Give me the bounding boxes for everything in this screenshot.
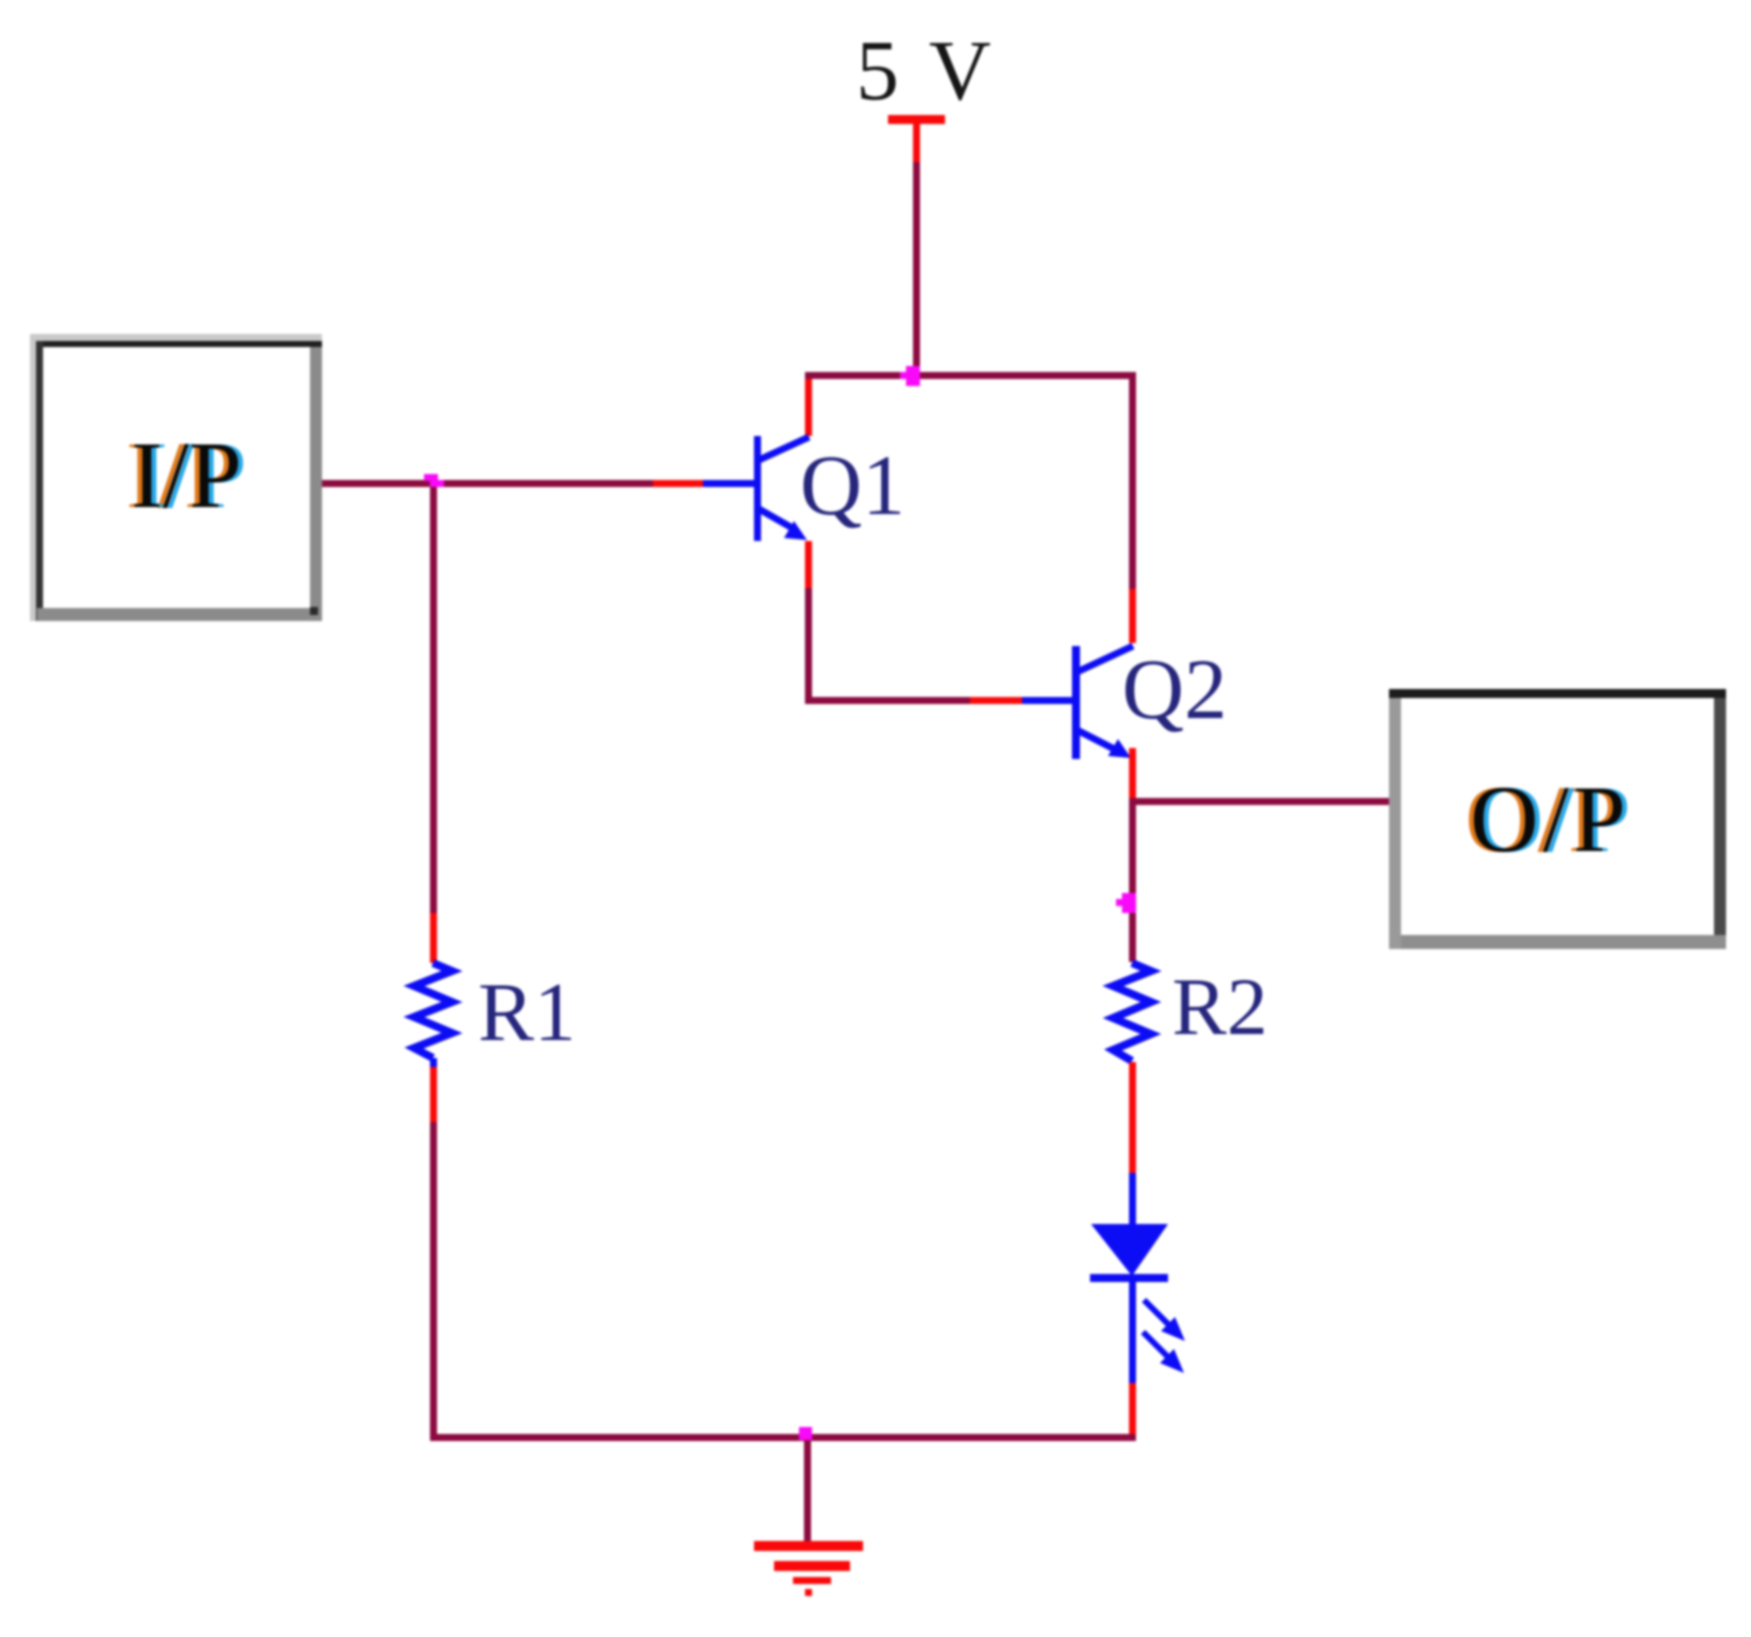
transistor Q1 [754,436,809,541]
label O/P [1465,766,1635,872]
wire Q2 emitter down [1129,748,1136,798]
svg-text:Q1: Q1 [800,437,905,533]
node junction J2 [424,474,444,487]
svg-text:Q2: Q2 [1122,641,1227,737]
node junction J3 [1116,893,1136,913]
wire R2 to LED [1129,1062,1136,1226]
wire Q1 collector red [805,379,812,436]
I/P box [30,334,322,621]
node 5V label [856,22,996,118]
node junction J4 [799,1427,812,1440]
svg-text:R1: R1 [478,966,576,1059]
wire 5V stem [913,162,920,373]
transistor Q2 [1072,646,1133,759]
wire Q1 emitter to Q2 base [805,697,1072,704]
wire emitter net down to R2 [1129,805,1136,962]
label I/P [126,422,247,528]
wire LED to bottom [1129,1383,1136,1434]
wire I/P to Q1 base [322,480,754,487]
power symbol 5V bar [888,115,945,162]
resistor R1 [414,963,452,1058]
wire I/P net left vertical [430,487,437,963]
O/P box [1389,689,1726,949]
wire Q1 emitter down [805,541,812,697]
ground [754,1541,863,1596]
resistor R2 [1113,963,1151,1061]
LED D1 [1090,1224,1185,1383]
svg-text:R2: R2 [1172,961,1268,1052]
node junction J1 [900,366,920,386]
wire to O/P box [1129,798,1389,805]
wire R1 to bottom [430,1058,437,1434]
wire bottom horizontal [430,1434,1136,1441]
svg-text:I/P: I/P [131,422,242,528]
svg-text:5 V: 5 V [856,22,996,118]
wire top horizontal (Q1 collector to Q2 collector net) [805,372,1136,379]
wire Q2 collector [1129,378,1136,643]
wire ground stem [804,1441,811,1551]
svg-text:O/P: O/P [1470,766,1630,872]
